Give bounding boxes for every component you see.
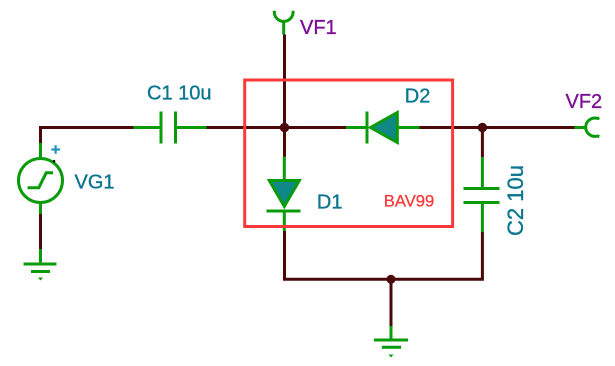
svg-text:VF1: VF1: [300, 17, 337, 39]
svg-text:C1 10u: C1 10u: [147, 83, 212, 105]
svg-text:VF2: VF2: [566, 91, 603, 113]
svg-text:BAV99: BAV99: [384, 191, 434, 210]
svg-text:C2 10u: C2 10u: [503, 165, 528, 236]
svg-text:VG1: VG1: [75, 172, 115, 194]
svg-text:D1: D1: [317, 191, 343, 213]
svg-text:D2: D2: [405, 85, 431, 107]
